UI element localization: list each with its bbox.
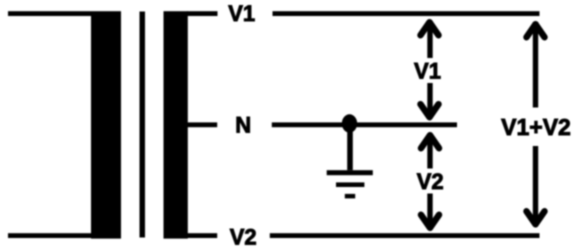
- ground bar 3: [345, 194, 355, 199]
- svg-text:N: N: [235, 113, 251, 138]
- V2 measure arrow up head: [421, 135, 439, 148]
- wire primary bottom lead: [8, 233, 91, 238]
- transformer T1 primary winding bar: [91, 11, 121, 238]
- svg-text:V1: V1: [228, 1, 255, 26]
- wire V1 line: [273, 11, 540, 16]
- V1 measure arrow down shaft: [427, 83, 432, 116]
- svg-text:V2: V2: [230, 225, 257, 250]
- wire V2 line: [270, 233, 540, 238]
- V2 measure arrow up shaft: [427, 134, 432, 169]
- transformer T1 core line: [140, 12, 146, 238]
- V1+V2 measure arrow up head: [527, 24, 545, 37]
- V1+V2 measure arrow up shaft: [533, 22, 538, 108]
- wire N line: [272, 122, 457, 127]
- transformer T1 secondary winding bar: [164, 11, 188, 238]
- wire V1 lead from secondary: [187, 11, 218, 16]
- ground bar 2: [336, 182, 364, 187]
- wire ground stem: [347, 124, 353, 170]
- wire primary top lead: [8, 11, 91, 16]
- V1 measure arrow up shaft: [427, 21, 432, 58]
- V1 measure arrow up head: [421, 22, 439, 35]
- V2 measure arrow down shaft: [427, 194, 432, 228]
- junction dot on N: [342, 114, 357, 132]
- svg-text:V1: V1: [414, 58, 441, 83]
- V1+V2 measure arrow down shaft: [533, 146, 538, 224]
- wire V2 lead from secondary: [187, 233, 217, 238]
- svg-text:V2: V2: [417, 169, 444, 194]
- wire N lead from secondary: [187, 122, 217, 127]
- V2 measure arrow down head: [421, 215, 439, 228]
- svg-text:V1+V2: V1+V2: [501, 114, 571, 140]
- ground bar 1: [327, 170, 373, 175]
- V1 measure arrow down head: [421, 104, 439, 117]
- V1+V2 measure arrow down head: [527, 211, 545, 224]
